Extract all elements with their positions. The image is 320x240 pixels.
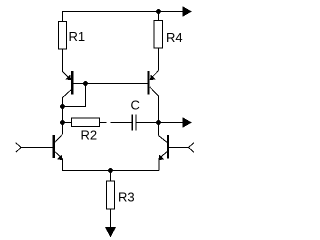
- svg-text:R1: R1: [69, 29, 86, 44]
- svg-text:C: C: [131, 98, 140, 113]
- svg-text:R2: R2: [81, 128, 98, 143]
- svg-text:R4: R4: [166, 30, 183, 45]
- svg-text:R3: R3: [118, 190, 135, 205]
